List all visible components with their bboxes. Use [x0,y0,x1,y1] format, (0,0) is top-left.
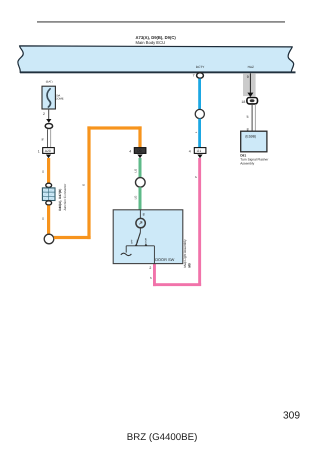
svg-text:BRZ (G4400BE): BRZ (G4400BE) [127,432,198,443]
arrow into connector [247,93,253,97]
svg-text:8: 8 [143,213,145,217]
arrow below IJ1 [197,155,202,159]
header label Main Body ECU [136,36,176,46]
wire LG (green) splice to map light box [139,187,142,210]
svg-text:309: 309 [283,411,300,422]
wire color label L [195,132,198,134]
svg-text:9: 9 [247,75,249,79]
connector at bottom of shield [247,98,258,104]
wire P (pink) connector to corner [198,158,201,286]
contact tick left [135,244,138,246]
svg-text:O: O [82,184,85,186]
splice circle on L wire [195,109,204,118]
svg-text:P: P [150,277,153,279]
contact tick right [145,244,148,246]
switch position label ON [136,240,139,243]
wire color label O [42,217,45,219]
label DOOR SW [155,258,174,263]
svg-text:A20: A20 [45,150,51,153]
svg-text:HAZ: HAZ [248,66,255,69]
internal lead bulb to switch arm [139,228,142,232]
pin number 8 at flasher [247,128,249,132]
pin number 4 at IJ1 [189,150,191,154]
svg-text:DOOR: DOOR [145,238,148,245]
svg-text:M9: M9 [188,263,191,267]
map light assembly box M9 [113,210,183,264]
svg-text:Map Light Assembly: Map Light Assembly [183,239,187,267]
top rule [37,21,285,23]
svg-text:W: W [42,138,45,141]
wire L (cyan) ECU to splice [198,79,201,110]
arrow below IJ9 [137,155,142,159]
pin number 2 at door switch [149,267,151,271]
pin number 18 [241,100,245,104]
svg-text:W: W [247,115,250,118]
wire L (cyan) splice to connector IJ1 [198,119,201,148]
wire color label O on riser [82,184,85,186]
wire color label W [42,138,45,141]
shield band at HAZ pin [243,73,256,96]
wire color label LG [135,169,138,173]
wire O riser up [87,126,90,239]
chassis ground squiggle [121,253,132,255]
svg-text:O: O [42,170,45,172]
turn signal flasher box D81 [241,131,267,152]
svg-text:18: 18 [241,100,245,104]
wire color label P [195,176,198,178]
splice circle on LG wire [136,178,146,188]
svg-text:2: 2 [43,113,45,117]
wire fuse to connector ring [48,110,49,120]
ECU box (Main Body ECU band) [18,46,294,72]
svg-text:4: 4 [189,150,191,154]
pin label HAZ on ECU [248,66,255,69]
svg-text:(E59B): (E59B) [245,135,256,139]
map light bulb [136,218,145,227]
svg-text:2: 2 [149,267,151,271]
internal lead to ground [125,246,127,253]
pin number 4 at IJ9 [129,150,131,154]
fuse value label 20A DOME [55,95,64,101]
label M9 Map Light Assembly [188,263,191,267]
pin number 7 [193,74,195,78]
connector ring pair below fuse [45,124,52,129]
wire P (pink) riser to door switch [153,264,156,286]
arrow below A20 [46,155,51,159]
pin label DCTY on ECU [196,66,205,69]
door switch arm [136,232,140,245]
wire P (pink) bottom horizontal run [153,283,201,286]
svg-text:OFF: OFF [131,239,134,244]
wire O (orange) A20 to junction connector [47,158,50,184]
internal lead to pin 2 [153,246,155,264]
svg-text:20A: 20A [55,95,60,98]
label (BAT) [46,81,53,84]
svg-text:IJ1: IJ1 [197,150,202,153]
wire O top horizontal [87,126,141,129]
wire O (orange) junction connector to node [47,205,50,234]
in-line connector IJ1 [194,148,206,154]
svg-text:DCTY: DCTY [196,66,205,69]
svg-text:Assembly: Assembly [240,161,254,165]
wire W (white) connector to flasher [252,104,256,131]
junction connector D46(A) D47(B) [42,188,55,201]
svg-text:DOME: DOME [55,98,64,101]
switch position label DOOR [145,238,148,245]
connector ring at ECU pin 7 [197,73,204,78]
svg-text:DOOR SW: DOOR SW [155,258,174,263]
svg-text:D46(A), D47(B): D46(A), D47(B) [59,189,63,211]
wire HAZ vertical in shield [250,73,251,93]
junction connector ring bottom [46,201,52,205]
wire W (white) ring to connector A20 [47,129,51,147]
svg-text:O: O [42,217,45,219]
svg-text:Junction Connector: Junction Connector [63,183,67,210]
label D81 Turn Signal Flasher Assembly [240,153,268,165]
label D46(A) D47(B) Junction Connector [59,189,63,211]
fuse DOME 20A [42,86,55,109]
junction connector ring top [46,183,52,187]
svg-text:(BAT): (BAT) [46,81,53,84]
wire O horizontal from node [54,236,91,239]
svg-text:P: P [195,176,198,178]
wire color label W [247,115,250,118]
ECU box bottom edge [20,71,296,73]
node circle bottom left [44,234,54,244]
svg-text:4: 4 [129,150,131,154]
switch contact rail [126,245,154,247]
wire LG (green) IJ9 to splice [139,158,142,178]
svg-text:LG: LG [135,169,138,173]
svg-text:IJ9: IJ9 [137,150,142,153]
arrow into ring [46,119,51,123]
wire O drop to connector IJ9 [138,126,141,147]
svg-text:L: L [195,132,198,134]
svg-text:ON: ON [136,240,139,243]
pin number 9 [247,75,249,79]
svg-text:A73(A), D9(B), D9(C): A73(A), D9(B), D9(C) [136,36,176,41]
pin number 8 at map light [143,213,145,217]
internal lead from pin 8 to bulb [139,210,142,219]
pin number 2 below fuse [43,113,45,117]
in-line connector A20 [43,148,55,154]
pin number 1 at A20 [38,150,40,154]
svg-text:7: 7 [193,74,195,78]
svg-text:LG: LG [135,196,138,200]
in-line connector IJ9 [134,148,146,154]
wire color label LG [135,196,138,200]
svg-text:Main Body ECU: Main Body ECU [136,41,166,46]
svg-text:1: 1 [38,150,40,154]
wire color label O [42,170,45,172]
wire color label P near riser [150,277,153,279]
switch position label OFF [131,239,134,244]
